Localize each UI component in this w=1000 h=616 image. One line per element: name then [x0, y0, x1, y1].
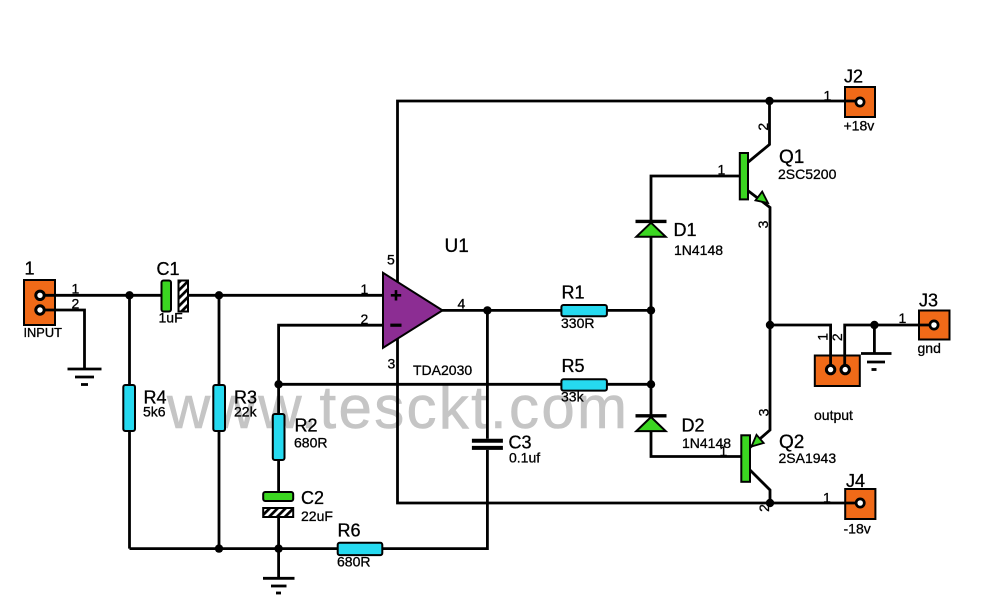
svg-text:0.1uf: 0.1uf — [509, 450, 540, 466]
svg-text:J4: J4 — [846, 471, 865, 491]
svg-text:+18v: +18v — [844, 118, 875, 134]
svg-text:U1: U1 — [445, 236, 469, 257]
svg-text:J2: J2 — [844, 66, 863, 86]
svg-text:C2: C2 — [301, 488, 324, 508]
svg-text:2SC5200: 2SC5200 — [778, 166, 837, 182]
svg-text:680R: 680R — [294, 435, 327, 451]
svg-text:330R: 330R — [561, 315, 594, 331]
svg-text:R5: R5 — [562, 356, 585, 376]
svg-text:2: 2 — [361, 311, 369, 327]
svg-text:1: 1 — [361, 281, 369, 297]
svg-text:gnd: gnd — [918, 340, 941, 356]
svg-text:3: 3 — [755, 220, 771, 228]
svg-text:R2: R2 — [295, 416, 318, 436]
svg-text:5: 5 — [387, 251, 395, 267]
svg-text:1uF: 1uF — [159, 310, 183, 326]
svg-text:33k: 33k — [561, 389, 585, 405]
svg-text:R6: R6 — [338, 521, 361, 541]
svg-text:4: 4 — [458, 295, 466, 311]
svg-text:-18v: -18v — [844, 520, 871, 536]
svg-text:D1: D1 — [674, 220, 697, 240]
svg-text:2SA1943: 2SA1943 — [779, 450, 837, 466]
svg-text:1: 1 — [823, 489, 831, 505]
svg-text:3: 3 — [388, 355, 396, 371]
svg-text:680R: 680R — [337, 554, 370, 570]
svg-text:2: 2 — [829, 333, 845, 341]
svg-text:1: 1 — [824, 88, 832, 104]
svg-text:1: 1 — [718, 162, 726, 178]
svg-text:J3: J3 — [919, 291, 938, 311]
svg-text:1N4148: 1N4148 — [674, 242, 723, 258]
svg-text:Q1: Q1 — [779, 147, 804, 168]
svg-text:TDA2030: TDA2030 — [413, 362, 472, 378]
svg-text:2: 2 — [755, 123, 771, 131]
svg-text:INPUT: INPUT — [24, 325, 63, 340]
svg-text:1: 1 — [72, 281, 80, 297]
svg-text:C1: C1 — [157, 259, 180, 279]
svg-text:1: 1 — [25, 259, 35, 279]
svg-text:output: output — [814, 407, 853, 423]
svg-text:1: 1 — [720, 443, 728, 459]
svg-text:22uF: 22uF — [301, 508, 333, 524]
svg-text:2: 2 — [72, 295, 80, 311]
svg-text:R1: R1 — [562, 283, 585, 303]
svg-text:1: 1 — [899, 310, 907, 326]
svg-text:D2: D2 — [682, 416, 705, 436]
svg-text:5k6: 5k6 — [143, 404, 166, 420]
svg-text:2: 2 — [756, 504, 772, 512]
svg-text:22k: 22k — [234, 404, 258, 420]
svg-text:3: 3 — [755, 408, 771, 416]
